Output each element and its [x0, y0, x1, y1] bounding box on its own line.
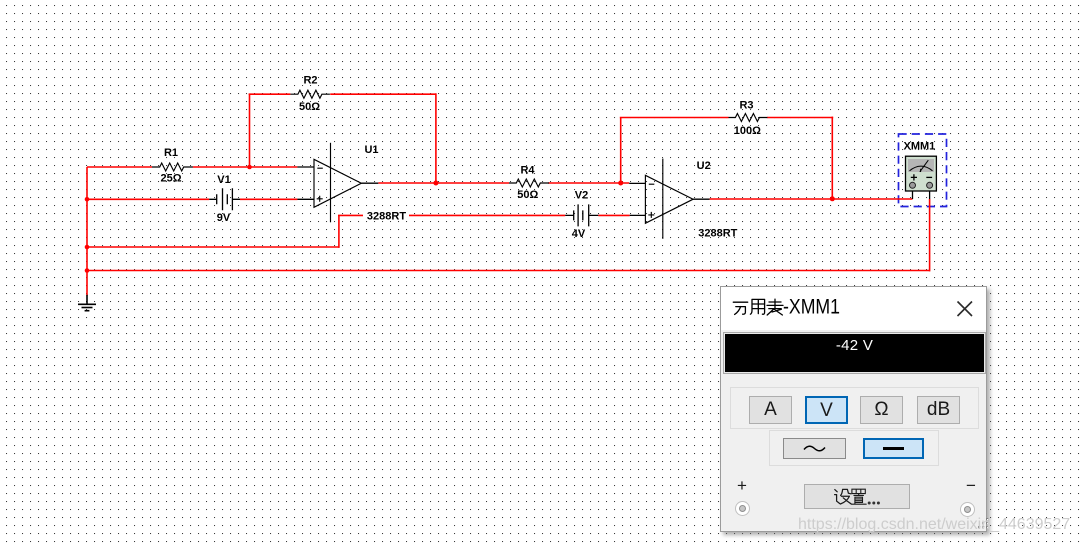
wire left vertical bus: [86, 167, 88, 296]
wire XMM1 minus vertical: [929, 199, 931, 271]
junction node plus-return bus: [85, 245, 90, 250]
junction node R3 left / R4: [618, 181, 623, 186]
wire plus-return horizontal from bus: [87, 246, 339, 248]
wire R3 right vertical to U2 output: [831, 117, 833, 199]
wire R4 to U2 minus input: [548, 182, 629, 184]
svg-text:R1: R1: [164, 147, 178, 159]
svg-text:U2: U2: [697, 160, 711, 172]
svg-text:V2: V2: [575, 190, 588, 202]
svg-text:25Ω: 25Ω: [160, 173, 181, 185]
op-amp U2: [629, 159, 737, 240]
svg-text:100Ω: 100Ω: [734, 125, 761, 137]
wire R2 left vertical: [249, 94, 251, 167]
svg-text:9V: 9V: [217, 212, 231, 224]
resistor R1: [152, 147, 193, 185]
svg-text:U1: U1: [364, 144, 378, 156]
svg-text:XMM1: XMM1: [904, 140, 936, 152]
svg-text:3288RT: 3288RT: [698, 228, 737, 240]
junction node R2 left / row A: [247, 165, 252, 170]
wire R3 right horizontal: [767, 117, 833, 119]
multimeter XMM1 icon: [904, 140, 937, 199]
op-amp U1: [297, 143, 409, 223]
battery V2: [565, 190, 598, 241]
wire V1 right (to U1 plus input): [240, 198, 297, 200]
wire bottom ground return: [87, 270, 930, 272]
wire R2 left horizontal: [249, 93, 291, 95]
wire V2 right to U2 plus input: [598, 214, 629, 216]
svg-text:50Ω: 50Ω: [299, 101, 320, 113]
wire U2 output to XMM1 plus: [710, 198, 913, 200]
svg-text:R3: R3: [739, 100, 753, 112]
wire to V2 (gap under 3288RT label): [338, 214, 565, 216]
wire R3 left horizontal: [620, 117, 729, 119]
wire R2 right horizontal: [330, 93, 436, 95]
resistor R4: [509, 165, 549, 202]
svg-text:50Ω: 50Ω: [517, 189, 538, 201]
svg-text:3288RT: 3288RT: [367, 210, 406, 222]
wire R2 right vertical to U1 output: [435, 93, 437, 183]
svg-text:4V: 4V: [572, 228, 586, 240]
junction node U2 output: [830, 196, 835, 201]
svg-text:R2: R2: [303, 75, 317, 87]
resistor R3: [729, 100, 768, 138]
wire U1 output to R4: [378, 182, 509, 184]
wire row A right (R1 to U1 minus input): [193, 166, 298, 168]
battery V1: [209, 174, 240, 224]
junction node bottom bus: [85, 268, 90, 273]
selection box XMM1: [899, 134, 947, 207]
junction node V1 bus: [85, 197, 90, 202]
svg-text:R4: R4: [520, 165, 535, 177]
ground: [78, 295, 96, 311]
watermark: [798, 516, 1070, 534]
multimeter dialog window: [720, 286, 987, 532]
wire row A left (to R1): [87, 166, 152, 168]
resistor R2: [290, 75, 330, 114]
svg-text:-XMM1: -XMM1: [783, 296, 840, 319]
svg-text:V1: V1: [217, 174, 230, 186]
wire V1 left: [87, 198, 209, 200]
wire R3 left vertical: [620, 118, 622, 184]
wire plus-return vertical corner: [338, 215, 340, 248]
junction node U1 output: [433, 181, 438, 186]
